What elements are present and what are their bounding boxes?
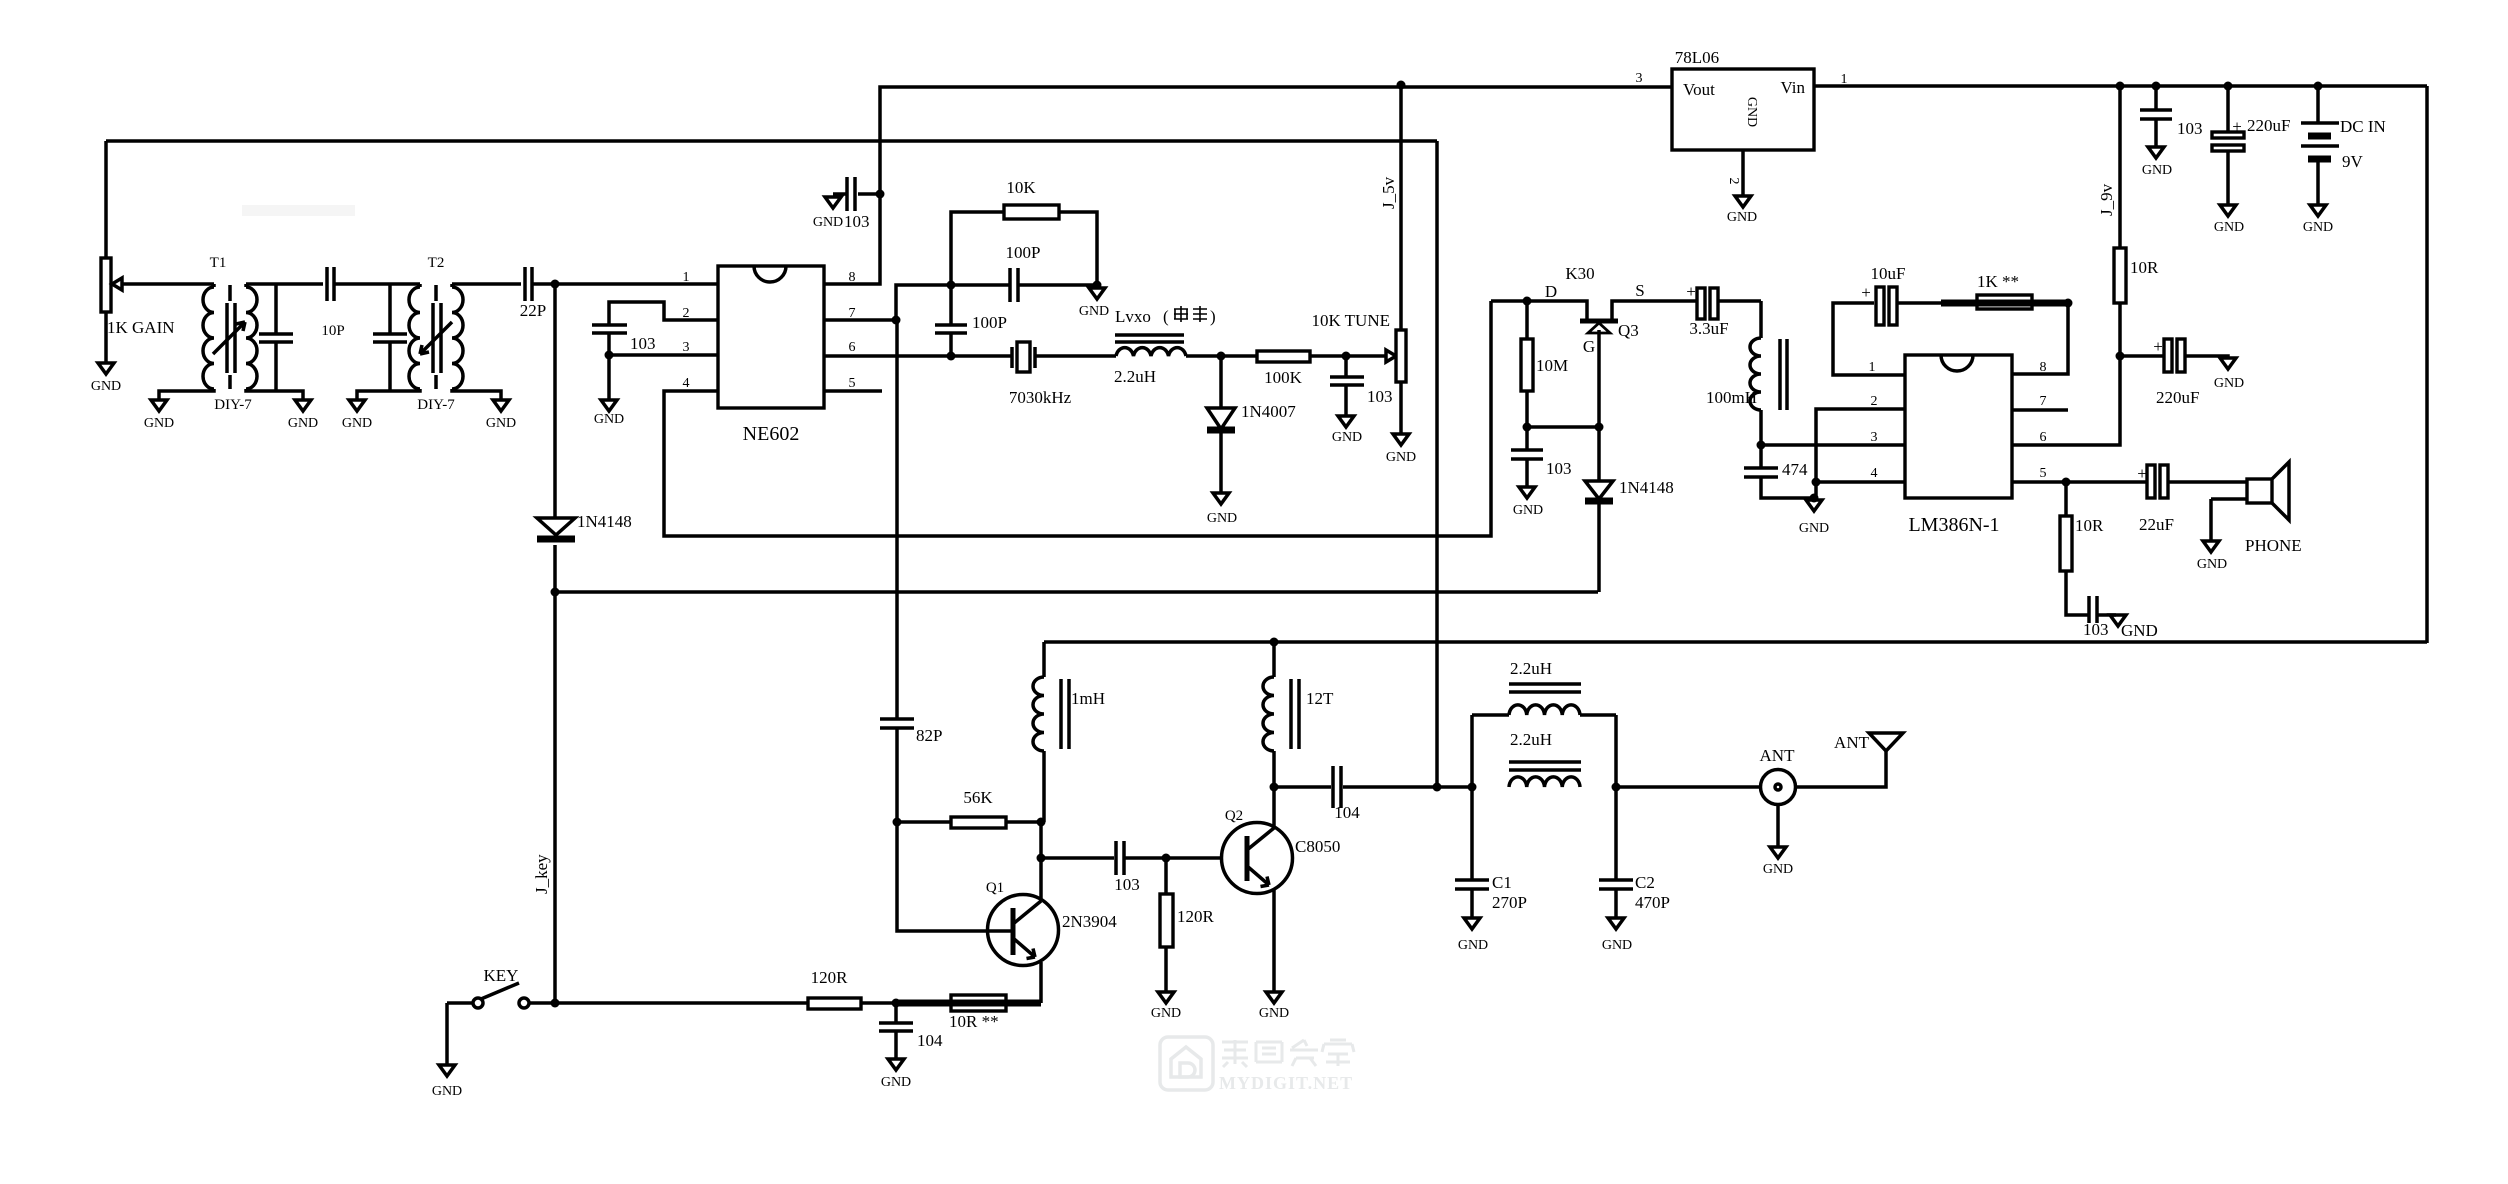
capacitor C2 470P <box>1599 787 1670 918</box>
svg-text:+: + <box>2137 464 2147 483</box>
node KEY junction <box>551 999 560 1008</box>
svg-text:Q2: Q2 <box>1225 808 1243 824</box>
capacitor 82P <box>880 320 942 822</box>
wire LM386 pin3 <box>1761 443 1905 447</box>
svg-text:10K: 10K <box>1006 178 1036 197</box>
svg-text:1N4007: 1N4007 <box>1241 402 1296 421</box>
svg-text:+: + <box>2153 337 2163 356</box>
svg-text:GND: GND <box>1386 450 1416 465</box>
resistor 120R bias <box>1160 858 1215 992</box>
wire LM386 pin8 <box>2012 303 2068 374</box>
IC 78L06 <box>1636 48 1848 150</box>
svg-text:12T: 12T <box>1306 689 1334 708</box>
resistor 10M <box>1521 301 1568 427</box>
svg-text:C8050: C8050 <box>1295 837 1340 856</box>
svg-text:DIY-7: DIY-7 <box>417 397 455 413</box>
node gate junction <box>1595 423 1604 432</box>
svg-text:GND: GND <box>2214 220 2244 235</box>
svg-text:103: 103 <box>1546 459 1572 478</box>
svg-text:1mH: 1mH <box>1071 689 1105 708</box>
svg-text:100K: 100K <box>1264 368 1303 387</box>
svg-text:103: 103 <box>2177 119 2203 138</box>
wire 10P to T2 <box>334 282 420 286</box>
wire NE602 pin4 to K30 drain <box>664 301 1491 536</box>
svg-text:470P: 470P <box>1635 893 1670 912</box>
svg-text:GND: GND <box>881 1075 911 1090</box>
node 474 gnd junction <box>1810 494 1819 503</box>
node pin5 junction <box>2062 478 2071 487</box>
svg-text:3: 3 <box>1636 71 1643 86</box>
node 12T top junction <box>1270 638 1279 647</box>
node 103 tune junction <box>1342 352 1351 361</box>
svg-text:10uF: 10uF <box>1871 264 1906 283</box>
svg-text:GND: GND <box>1332 430 1362 445</box>
wire RX top rail <box>106 139 1437 143</box>
resistor 10R J_9v <box>2114 86 2159 356</box>
svg-text:3.3uF: 3.3uF <box>1689 319 1728 338</box>
svg-text:100P: 100P <box>972 313 1007 332</box>
ground T1 secondary <box>288 400 318 431</box>
node 10M bottom <box>1523 423 1532 432</box>
diode 1N4148 K30 gate <box>1585 427 1674 592</box>
svg-text:J_9v: J_9v <box>2097 183 2116 216</box>
faint watermark smudge <box>242 205 355 216</box>
wire gate row <box>1527 425 1599 429</box>
svg-text:ANT: ANT <box>1834 733 1870 752</box>
capacitor 10P <box>321 267 344 339</box>
svg-text:9V: 9V <box>2342 152 2364 171</box>
node 56K right junction <box>1037 818 1046 827</box>
svg-text:GND: GND <box>1207 511 1237 526</box>
svg-text:10R **: 10R ** <box>949 1012 999 1031</box>
ground 78L06 pin2 <box>1726 150 1757 225</box>
wire TX rail <box>1044 640 2427 644</box>
svg-text:GND: GND <box>2121 621 2158 640</box>
svg-text:104: 104 <box>917 1031 943 1050</box>
wire LM386 pin6 <box>2012 356 2120 445</box>
node crystal junction <box>947 352 956 361</box>
wire NE602 pin7 <box>824 318 896 322</box>
svg-text:S: S <box>1635 281 1644 300</box>
transistor Q1 2N3904 <box>986 822 1117 1003</box>
svg-text:GND: GND <box>1259 1006 1289 1021</box>
ground 103 K30 <box>1513 487 1543 518</box>
svg-text:ANT: ANT <box>1760 746 1796 765</box>
svg-text:Q1: Q1 <box>986 880 1004 896</box>
svg-text:104: 104 <box>1334 803 1360 822</box>
ground pot 1K GAIN <box>91 363 121 394</box>
capacitor 100P feedback <box>1006 243 1097 302</box>
svg-text:10M: 10M <box>1536 356 1568 375</box>
svg-text:GND: GND <box>813 215 843 230</box>
wire NE602 pin2 <box>609 302 718 325</box>
svg-text:GND: GND <box>2197 557 2227 572</box>
node battery junction <box>2314 82 2323 91</box>
node 22P junction <box>551 280 560 289</box>
svg-text:T2: T2 <box>428 255 445 271</box>
svg-text:GND: GND <box>2303 220 2333 235</box>
resistor 56K <box>897 788 1041 828</box>
svg-text:Vin: Vin <box>1781 78 1806 97</box>
node K30 drain junction <box>1523 297 1532 306</box>
resistor 1K ** <box>1941 272 2068 309</box>
wire 22P to NE602 pin1 <box>532 282 718 286</box>
svg-text:GND: GND <box>1513 503 1543 518</box>
ground 220uF rail <box>2214 205 2244 235</box>
svg-text:270P: 270P <box>1492 893 1527 912</box>
ground KEY <box>432 1003 462 1099</box>
inductor 2.2uH bottom <box>1509 730 1581 787</box>
svg-text:7030kHz: 7030kHz <box>1009 388 1072 407</box>
wire T2 to 22P <box>452 282 521 286</box>
wire NE602 pin5 stub <box>824 389 882 393</box>
capacitor 10uF <box>1861 264 1941 325</box>
svg-text:): ) <box>1210 307 1216 326</box>
node 1N4007 junction <box>1217 352 1226 361</box>
wire LM386 pin4 <box>1816 480 1905 484</box>
capacitor 474 <box>1744 445 1814 498</box>
svg-text:2N3904: 2N3904 <box>1062 912 1117 931</box>
svg-text:1: 1 <box>683 270 690 285</box>
svg-text:(: ( <box>1163 307 1169 326</box>
svg-text:2.2uH: 2.2uH <box>1114 367 1156 386</box>
node pin8 cap junction <box>876 190 885 199</box>
svg-text:GND: GND <box>1079 304 1109 319</box>
transformer T2 <box>357 255 501 413</box>
watermark logo <box>1160 1037 1213 1090</box>
svg-text:DIY-7: DIY-7 <box>214 397 252 413</box>
node LPF right junction <box>1612 783 1621 792</box>
wire coupling row <box>1041 856 1114 860</box>
svg-text:103: 103 <box>844 212 870 231</box>
svg-text:GND: GND <box>1727 210 1757 225</box>
ground 104 key <box>881 1059 911 1090</box>
svg-text:C1: C1 <box>1492 873 1512 892</box>
speaker PHONE <box>2211 462 2302 555</box>
svg-text:100P: 100P <box>1006 243 1041 262</box>
wire pin7 to oscillator <box>896 285 1010 320</box>
resistor 10R pin5 <box>2060 482 2104 615</box>
resistor 100K <box>1221 351 1386 387</box>
svg-text:1K GAIN: 1K GAIN <box>107 318 175 337</box>
ground T2 primary <box>342 400 372 431</box>
capacitor 220uF LM386 <box>2120 337 2228 407</box>
battery DC IN 9V <box>2301 86 2386 205</box>
svg-text:2: 2 <box>1871 394 1878 409</box>
capacitor 103 tune <box>1330 356 1393 416</box>
svg-text:C2: C2 <box>1635 873 1655 892</box>
node osc cap junction <box>947 281 956 290</box>
capacitor 103 at pin8 <box>813 177 880 231</box>
svg-text:GND: GND <box>1602 938 1632 953</box>
node 100mH bottom junction <box>1757 441 1766 450</box>
wire LM386 pin1 <box>1833 303 1905 375</box>
diode 1N4007 <box>1207 356 1296 493</box>
svg-text:2.2uH: 2.2uH <box>1510 730 1552 749</box>
wire right edge vertical <box>2425 86 2429 643</box>
node pin7 junction <box>892 316 901 325</box>
svg-text:4: 4 <box>683 376 690 391</box>
node 220uF rail junction <box>2224 82 2233 91</box>
svg-text:103: 103 <box>1367 387 1393 406</box>
svg-text:1: 1 <box>1869 360 1876 375</box>
svg-text:6: 6 <box>2040 430 2047 445</box>
transistor Q2 C8050 <box>1222 787 1341 992</box>
svg-text:3: 3 <box>683 340 690 355</box>
resistor 120R key <box>555 968 896 1009</box>
ground speaker <box>2197 499 2227 572</box>
svg-text:K30: K30 <box>1565 264 1594 283</box>
svg-text:120R: 120R <box>811 968 849 987</box>
svg-text:Q3: Q3 <box>1618 321 1639 340</box>
svg-text:GND: GND <box>1799 521 1829 536</box>
inductor 2.2uH top <box>1472 659 1616 787</box>
ground C2 <box>1602 918 1632 953</box>
ground T1 primary <box>144 400 174 431</box>
IC NE602 <box>683 266 856 445</box>
diode 1N4148 on J_key line <box>537 512 632 539</box>
svg-text:KEY: KEY <box>484 966 519 985</box>
svg-text:DC IN: DC IN <box>2340 117 2386 136</box>
ground 120R <box>1151 992 1181 1021</box>
capacitor 104 key <box>879 1003 943 1059</box>
capacitor 3.3uF <box>1686 282 1761 338</box>
wire 9V rail <box>1814 84 2427 88</box>
svg-text:GND: GND <box>2142 163 2172 178</box>
svg-text:120R: 120R <box>1177 907 1215 926</box>
connector ANT <box>1760 746 1796 805</box>
svg-text:D: D <box>1545 282 1557 301</box>
svg-text:GND: GND <box>1744 97 1759 127</box>
svg-text:+: + <box>1861 283 1871 302</box>
node pin2 pin4 junction <box>1812 478 1821 487</box>
wire NE602 pin3 <box>609 353 718 357</box>
svg-text:GND: GND <box>91 379 121 394</box>
svg-text:220uF: 220uF <box>2156 388 2199 407</box>
node LPF left junction <box>1468 783 1477 792</box>
wire T1 secondary top <box>246 282 323 286</box>
capacitor 103 K30 <box>1511 427 1572 487</box>
capacitor 100P shunt <box>935 285 1007 356</box>
node Q2 collector junction <box>1270 783 1279 792</box>
svg-text:GND: GND <box>1151 1006 1181 1021</box>
wire J_key vertical <box>532 284 555 1003</box>
svg-text:6: 6 <box>849 340 856 355</box>
capacitor 104 TX out <box>1274 766 1472 822</box>
ground pin8 cap <box>825 197 841 208</box>
wire LM386 pin2 <box>1816 409 1905 498</box>
ground battery <box>2303 205 2333 235</box>
wire to K30 gate diode <box>555 590 1598 594</box>
ground osc <box>1079 288 1109 319</box>
svg-text:220uF: 220uF <box>2247 116 2290 135</box>
wire LPF to ANT <box>1616 785 1761 789</box>
wire wiper to T1 <box>122 282 214 286</box>
ground ANT <box>1763 805 1793 877</box>
svg-text:+: + <box>1686 282 1696 301</box>
wire Q1 base <box>897 822 1011 931</box>
svg-text:10R: 10R <box>2075 516 2104 535</box>
svg-text:PHONE: PHONE <box>2245 536 2302 555</box>
transformer T1 <box>159 255 303 413</box>
svg-text:GND: GND <box>2214 376 2244 391</box>
wire NE602 pin8 <box>824 87 1672 284</box>
svg-text:G: G <box>1583 337 1595 356</box>
inductor 1mH <box>1033 642 1105 822</box>
wire NE602 pin6 <box>824 354 1012 358</box>
inductor 12T <box>1263 642 1334 787</box>
capacitor C1 270P <box>1455 787 1527 918</box>
capacitor 103 coupling <box>1114 841 1221 894</box>
node 56K left junction <box>893 818 902 827</box>
node J_9v junction <box>2116 82 2125 91</box>
svg-text:Lvxo: Lvxo <box>1115 307 1151 326</box>
potentiometer 10K TUNE <box>1311 85 1406 434</box>
capacitor 220uF rail <box>2212 86 2290 205</box>
IC LM386N-1 <box>1869 355 2047 536</box>
node key cap junction <box>892 999 901 1008</box>
capacitor 22uF <box>2137 464 2247 534</box>
svg-text:103: 103 <box>1114 875 1140 894</box>
ground C1 <box>1458 918 1488 953</box>
svg-text:103: 103 <box>2083 620 2109 639</box>
svg-text:100mH: 100mH <box>1706 388 1757 407</box>
svg-text:82P: 82P <box>916 726 942 745</box>
ground 220uF LM386 <box>2214 358 2244 391</box>
inductor 100mH <box>1706 301 1787 445</box>
svg-text:MYDIGIT.NET: MYDIGIT.NET <box>1219 1073 1353 1093</box>
svg-text:7: 7 <box>2040 394 2047 409</box>
svg-text:3: 3 <box>1871 430 1878 445</box>
label 选装 <box>1163 306 1216 326</box>
svg-text:GND: GND <box>1763 862 1793 877</box>
svg-text:4: 4 <box>1871 466 1878 481</box>
svg-text:1N4148: 1N4148 <box>1619 478 1674 497</box>
transistor Q3 K30 <box>1491 264 1697 427</box>
svg-text:GND: GND <box>486 416 516 431</box>
resistor 10R ** <box>896 995 1041 1031</box>
svg-text:+: + <box>2232 117 2242 136</box>
svg-text:474: 474 <box>1782 460 1808 479</box>
svg-text:22uF: 22uF <box>2139 515 2174 534</box>
switch KEY <box>447 966 555 1008</box>
svg-text:LM386N-1: LM386N-1 <box>1908 514 1999 536</box>
svg-text:78L06: 78L06 <box>1675 48 1719 67</box>
watermark text <box>1219 1040 1354 1093</box>
svg-text:1K **: 1K ** <box>1977 272 2019 291</box>
ground T2 secondary <box>486 400 516 431</box>
crystal 7030kHz <box>1009 342 1116 407</box>
svg-text:J_key: J_key <box>532 854 551 894</box>
capacitor shunt at T2 <box>373 284 407 391</box>
svg-text:5: 5 <box>849 376 856 391</box>
wire LM386 pin7 stub <box>2012 408 2068 412</box>
svg-text:GND: GND <box>288 416 318 431</box>
node 120R top junction <box>1162 854 1171 863</box>
svg-text:NE602: NE602 <box>743 423 800 445</box>
svg-text:Vout: Vout <box>1683 80 1715 99</box>
capacitor 103 at NE602 pin3 <box>592 325 656 355</box>
ground 1N4007 <box>1207 493 1237 526</box>
node pin6 220uF junction <box>2116 352 2125 361</box>
node 1K pin8 junction <box>2064 299 2073 308</box>
svg-text:10R: 10R <box>2130 258 2159 277</box>
node J_5v junction <box>1397 81 1406 90</box>
node Q1 collector coupling junction <box>1037 854 1046 863</box>
svg-text:22P: 22P <box>520 301 546 320</box>
wire LM386 pin5 <box>2012 480 2148 484</box>
ground NE602 pin3 cap <box>594 355 624 427</box>
svg-text:GND: GND <box>594 412 624 427</box>
svg-text:2: 2 <box>1726 178 1741 185</box>
svg-text:GND: GND <box>432 1084 462 1099</box>
potentiometer 1K GAIN <box>101 141 175 363</box>
node pin3 junction <box>605 351 614 360</box>
capacitor 103 pin5 <box>2083 596 2116 639</box>
svg-text:GND: GND <box>144 416 174 431</box>
node 103 rail junction <box>2152 82 2161 91</box>
ground 103 tune <box>1332 416 1362 445</box>
svg-text:2.2uH: 2.2uH <box>1510 659 1552 678</box>
svg-text:GND: GND <box>342 416 372 431</box>
ground 103 pin5 <box>2110 615 2158 640</box>
ground 10K TUNE <box>1386 434 1416 465</box>
svg-text:56K: 56K <box>963 788 993 807</box>
svg-text:5: 5 <box>2040 466 2047 481</box>
node RX tap junction <box>1433 783 1442 792</box>
node 1N4148 junction <box>551 588 560 597</box>
ground 103 rail <box>2142 147 2172 178</box>
svg-text:1N4148: 1N4148 <box>577 512 632 531</box>
svg-text:10P: 10P <box>321 323 344 339</box>
svg-text:103: 103 <box>630 334 656 353</box>
wire RX vertical <box>1435 141 1439 787</box>
node osc right junction <box>1093 281 1102 290</box>
antenna ANT <box>1796 733 1903 787</box>
capacitor 22P <box>520 267 546 320</box>
capacitor 103 rail <box>2140 86 2203 147</box>
svg-text:J_5v: J_5v <box>1379 176 1398 209</box>
resistor 10K osc <box>951 178 1097 285</box>
svg-text:GND: GND <box>1458 938 1488 953</box>
capacitor shunt at T1 <box>259 284 293 391</box>
svg-text:10K TUNE: 10K TUNE <box>1311 311 1390 330</box>
svg-text:T1: T1 <box>210 255 227 271</box>
inductor Lvxo 2.2uH <box>1114 307 1221 386</box>
ground Q2 emitter <box>1259 992 1289 1021</box>
ground 474 <box>1799 500 1829 536</box>
